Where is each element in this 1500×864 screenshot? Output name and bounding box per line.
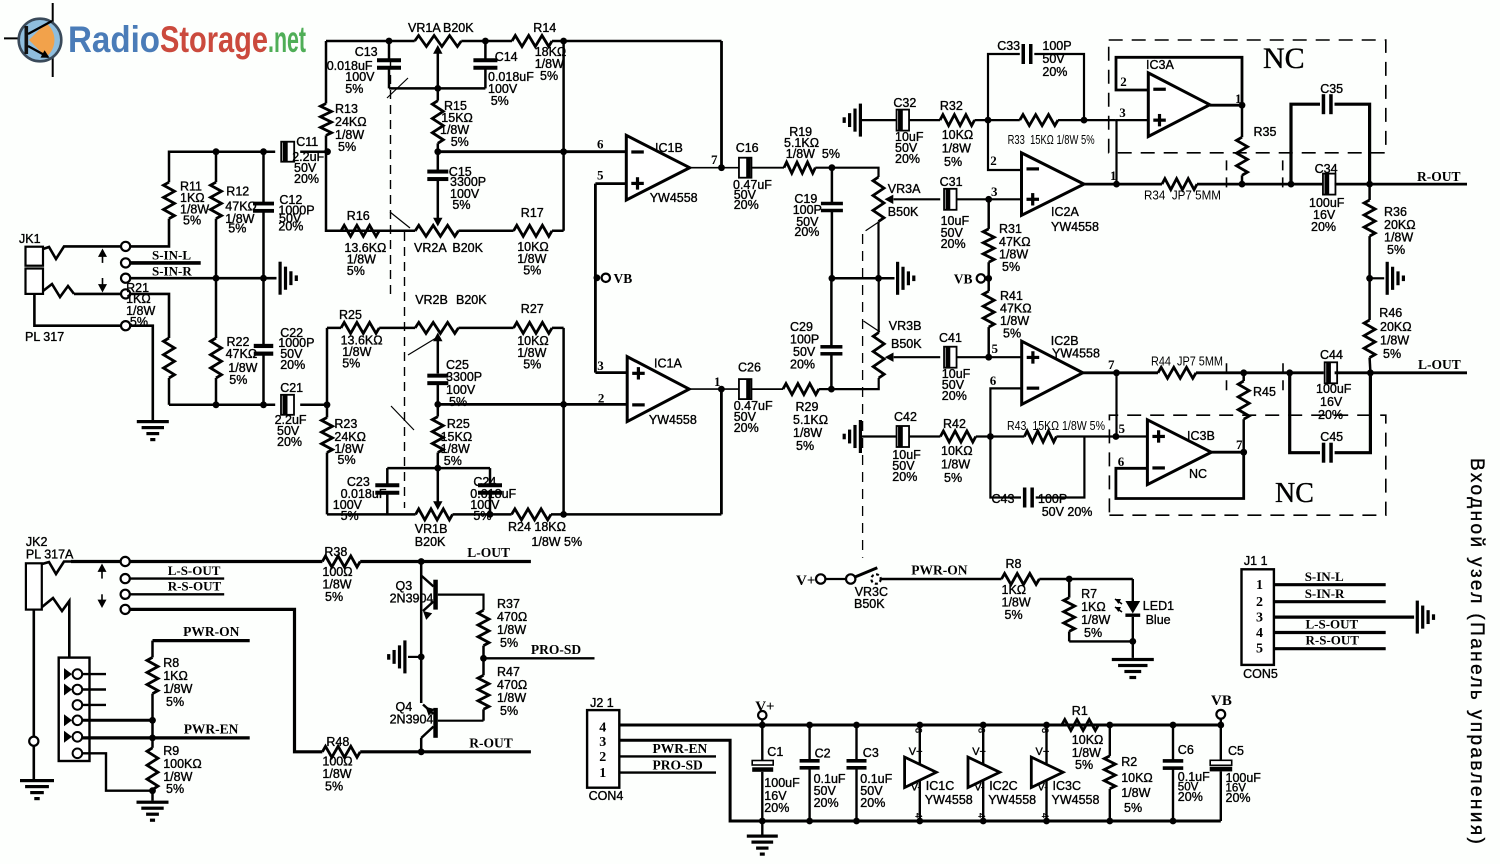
svg-text:V+: V+ — [796, 573, 815, 589]
svg-text:20%: 20% — [1042, 65, 1067, 79]
junction C19 top — [829, 164, 836, 171]
svg-text:R36: R36 — [1384, 205, 1407, 219]
potentiometer VR2A B20K — [414, 225, 484, 255]
svg-text:20%: 20% — [294, 172, 319, 186]
junction Q4 emitter — [418, 748, 425, 755]
svg-text:Blue: Blue — [1146, 613, 1171, 627]
svg-text:5%: 5% — [500, 704, 518, 718]
svg-text:3: 3 — [1119, 105, 1126, 120]
junction R36 top — [1366, 181, 1373, 188]
resistor R9 — [147, 744, 202, 796]
svg-text:R34 JP7 5MM: R34 JP7 5MM — [1144, 189, 1221, 203]
svg-text:470Ω: 470Ω — [497, 610, 527, 624]
op-amp IC3A — [1146, 58, 1210, 137]
svg-text:100KΩ: 100KΩ — [163, 757, 202, 771]
ground (S-IN-R) — [279, 262, 282, 295]
svg-text:LED1: LED1 — [1143, 599, 1174, 613]
svg-text:R14: R14 — [533, 21, 556, 35]
svg-text:5%: 5% — [325, 590, 343, 604]
jack JK1 switch arrow lower — [98, 278, 107, 293]
resistor R44 JP7.5MM — [1151, 355, 1223, 379]
junction VR3A bottom — [875, 275, 882, 282]
svg-text:V+: V+ — [909, 746, 923, 758]
wire bottom rail y514 — [327, 513, 721, 516]
svg-text:C13: C13 — [355, 45, 378, 59]
wire header pin1 stub — [82, 673, 106, 675]
NC dashed box bottom — [1109, 363, 1385, 515]
junction riser bottom — [560, 511, 567, 518]
junction pin4/R8/R9 — [149, 717, 156, 724]
svg-text:S-IN-R: S-IN-R — [152, 264, 192, 279]
svg-text:8: 8 — [913, 728, 923, 733]
svg-text:J2 1: J2 1 — [590, 696, 614, 710]
wire IC1A output — [689, 388, 739, 390]
junction pin6 wire — [560, 148, 567, 155]
svg-text:1/8W: 1/8W — [497, 691, 526, 705]
svg-text:20%: 20% — [734, 421, 759, 435]
junction C12/S-IN-R — [260, 275, 267, 282]
ground (power) — [747, 835, 778, 838]
svg-text:5%: 5% — [500, 636, 518, 650]
svg-text:2: 2 — [1256, 595, 1263, 610]
svg-text:20%: 20% — [764, 801, 789, 815]
svg-text:1/8W 5%: 1/8W 5% — [531, 535, 582, 549]
terminal circle JK2 sleeve — [29, 737, 38, 746]
svg-text:8: 8 — [977, 728, 987, 733]
svg-text:VB: VB — [954, 272, 973, 287]
wire L-S-OUT stub — [130, 577, 224, 579]
svg-text:2: 2 — [1120, 74, 1127, 89]
op-amp IC2A — [1022, 153, 1099, 234]
svg-text:YW4558: YW4558 — [649, 413, 697, 427]
op-amp IC3C buffer — [1031, 722, 1099, 825]
wire C31 to IC2A — [957, 198, 1022, 200]
svg-text:4: 4 — [977, 813, 987, 818]
jack JK2 sleeve contact — [42, 598, 69, 611]
junction C22 bottom — [260, 401, 267, 408]
node VB bottom — [1211, 693, 1232, 728]
svg-text:R46: R46 — [1379, 306, 1402, 320]
wire R25 row — [379, 327, 563, 330]
junction mid node — [418, 654, 425, 661]
wire ground rail — [762, 820, 1221, 823]
capacitor C31 — [940, 175, 970, 251]
resistor R19 — [784, 125, 840, 173]
svg-text:R24 18KΩ: R24 18KΩ — [508, 520, 566, 534]
svg-text:PL 317A: PL 317A — [26, 548, 74, 562]
junction IC1A out — [718, 386, 725, 393]
svg-text:R43 15KΩ 1/8W 5%: R43 15KΩ 1/8W 5% — [1007, 419, 1105, 433]
svg-text:5%: 5% — [341, 509, 359, 523]
wire CON4 pin3 to ground rail — [619, 740, 762, 821]
svg-text:5%: 5% — [1075, 758, 1093, 772]
svg-text:IC1B: IC1B — [655, 141, 683, 155]
svg-text:PRO-SD: PRO-SD — [531, 642, 582, 657]
svg-text:R35: R35 — [1254, 125, 1277, 139]
capacitor C25 — [427, 358, 482, 409]
svg-text:IC1A: IC1A — [654, 357, 682, 371]
svg-text:B20K: B20K — [443, 21, 474, 35]
svg-text:C44: C44 — [1320, 348, 1343, 362]
capacitor C42 — [892, 410, 921, 484]
resistor R1 — [1062, 704, 1104, 772]
wire IC3A output — [1210, 104, 1242, 107]
wire to right ground — [1370, 277, 1385, 279]
capacitor C15 — [427, 152, 486, 222]
svg-text:100uF: 100uF — [1316, 382, 1352, 396]
svg-text:NC: NC — [1275, 478, 1314, 509]
wire C32 to R32 — [909, 119, 940, 121]
capacitor C2 — [800, 722, 846, 825]
wire S-IN-L stub — [130, 261, 201, 265]
svg-text:16V: 16V — [1320, 395, 1343, 409]
capacitor C11 — [281, 135, 324, 186]
wire jack1 ring to R21 — [74, 294, 169, 338]
svg-text:YW4558: YW4558 — [650, 191, 698, 205]
op-amp IC1B — [626, 135, 697, 205]
wire R32-R33 — [975, 119, 1020, 121]
svg-text:IC3A: IC3A — [1146, 58, 1174, 72]
resistor R8 — [147, 641, 193, 721]
svg-text:S-IN-L: S-IN-L — [1305, 569, 1344, 584]
svg-text:20%: 20% — [277, 435, 302, 449]
ground (R9) — [137, 801, 169, 804]
svg-text:20%: 20% — [814, 796, 839, 810]
wire right column x563 lower — [562, 328, 565, 515]
svg-text:10KΩ: 10KΩ — [942, 128, 974, 142]
junction R12/S-IN-R — [213, 275, 220, 282]
svg-text:100uF: 100uF — [764, 776, 800, 790]
resistor R42 — [940, 417, 975, 485]
wire input node R-channel — [169, 152, 326, 183]
svg-text:R12: R12 — [226, 185, 249, 199]
svg-text:V-: V- — [1038, 782, 1049, 794]
resistor R46 — [1364, 278, 1411, 373]
capacitor C45 loop — [1290, 373, 1371, 463]
capacitor C32 — [893, 96, 923, 166]
wire V+ to switch — [825, 578, 846, 580]
wire header pin4 to R8/R9 — [82, 719, 152, 722]
svg-text:7: 7 — [711, 152, 718, 167]
wire PWR-ON to R8b — [881, 578, 1002, 580]
junction R2 bottom — [1106, 818, 1113, 825]
node V+ rail — [755, 699, 774, 728]
svg-text:5%: 5% — [449, 395, 467, 409]
junction PRO-SD — [480, 655, 487, 662]
capacitor C35 loop — [1291, 82, 1370, 184]
wire VB column — [594, 184, 597, 373]
node VB right — [954, 272, 992, 287]
svg-text:VR2A: VR2A — [414, 241, 447, 255]
junction C1 bottom — [759, 818, 766, 825]
wiper VR2B arrow — [433, 333, 442, 374]
svg-text:4: 4 — [1256, 626, 1263, 641]
svg-text:R37: R37 — [497, 597, 520, 611]
potentiometer VR3A B50K — [873, 177, 921, 278]
junction R45 top — [1240, 369, 1247, 376]
svg-text:IC1C: IC1C — [926, 779, 954, 793]
wire R29 to VR3B — [819, 387, 879, 390]
svg-text:PWR-EN: PWR-EN — [653, 741, 708, 756]
potentiometer VR1B B20K — [415, 509, 453, 549]
svg-text:5.1KΩ: 5.1KΩ — [793, 413, 828, 427]
svg-text:5%: 5% — [130, 315, 148, 329]
svg-text:R29: R29 — [796, 400, 819, 414]
wire right column x563 — [562, 41, 565, 231]
svg-text:PWR-ON: PWR-ON — [911, 563, 967, 578]
svg-text:L-S-OUT: L-S-OUT — [1306, 617, 1359, 632]
svg-text:VR3A: VR3A — [888, 182, 921, 196]
wire R43 to IC3B plus — [1116, 435, 1148, 437]
svg-text:5%: 5% — [1005, 608, 1023, 622]
svg-text:PWR-EN: PWR-EN — [184, 722, 239, 737]
wiper VR2A arrow — [433, 218, 442, 227]
svg-text:C41: C41 — [939, 331, 962, 345]
svg-text:R13: R13 — [335, 102, 358, 116]
resistor R38 — [322, 545, 360, 604]
svg-text:1/8W: 1/8W — [497, 623, 526, 637]
svg-text:5%: 5% — [1383, 347, 1401, 361]
junction R25b bottom — [434, 465, 441, 472]
wire header pin6 to ground node — [82, 753, 152, 790]
svg-text:R48: R48 — [326, 735, 349, 749]
wire C23-C24 loop — [387, 467, 490, 470]
svg-text:C34: C34 — [1315, 162, 1338, 176]
svg-text:C43: C43 — [992, 492, 1015, 506]
connector J2 CON4 — [587, 696, 623, 803]
svg-text:C11: C11 — [296, 135, 318, 149]
resistor R11 — [164, 180, 210, 228]
wire header pin3 stub — [82, 704, 106, 706]
wire CON5 pin4 L-S-OUT — [1274, 631, 1386, 634]
junction R36/R46 ground — [1366, 275, 1373, 282]
junction R46 bottom — [1367, 369, 1374, 376]
svg-text:C31: C31 — [940, 175, 963, 189]
svg-text:IC3C: IC3C — [1053, 779, 1081, 793]
svg-text:C42: C42 — [894, 410, 917, 424]
resistor R15 — [432, 88, 473, 151]
svg-text:VR3B: VR3B — [889, 319, 922, 333]
svg-text:5%: 5% — [444, 454, 462, 468]
svg-text:6: 6 — [597, 137, 604, 152]
wire JK2 sleeve to ground — [32, 610, 35, 779]
resistor R16 — [341, 209, 386, 278]
junction C19 bottom — [829, 275, 836, 282]
svg-text:VB: VB — [1211, 693, 1232, 709]
svg-text:5%: 5% — [523, 358, 541, 372]
wire CON5 pin5 R-S-OUT — [1274, 647, 1386, 650]
junction PWR-EN/R9 — [149, 735, 156, 742]
svg-text:R38: R38 — [324, 545, 347, 559]
svg-text:50V: 50V — [1042, 52, 1065, 66]
connector JK2 PL317A jack body — [26, 535, 74, 610]
svg-text:CON5: CON5 — [1243, 667, 1278, 681]
junction C14 top — [482, 38, 489, 45]
svg-text:B20K: B20K — [456, 293, 487, 307]
svg-text:J1 1: J1 1 — [1244, 554, 1268, 568]
wire pin2 IC2A — [988, 120, 1022, 170]
svg-text:5%: 5% — [796, 439, 814, 453]
svg-text:YW4558: YW4558 — [1052, 793, 1100, 807]
svg-text:20%: 20% — [895, 152, 920, 166]
resistor R2 — [1104, 725, 1152, 821]
wire IC2A output — [1084, 183, 1162, 186]
wire pin2 IC1A — [437, 403, 627, 406]
svg-text:5: 5 — [992, 341, 999, 356]
potentiometer VR1A B20K — [408, 21, 474, 47]
svg-text:1KΩ: 1KΩ — [1081, 600, 1106, 614]
resistor R29 — [783, 384, 828, 453]
wire C13-C14 loop — [389, 87, 485, 90]
capacitor C29 — [790, 278, 842, 389]
svg-text:5%: 5% — [540, 69, 558, 83]
junction C29 bottom — [828, 386, 835, 393]
svg-text:24KΩ: 24KΩ — [335, 115, 367, 129]
svg-text:R45: R45 — [1253, 385, 1276, 399]
wire mid node to ground — [408, 656, 421, 658]
svg-text:3: 3 — [597, 358, 604, 373]
svg-text:7: 7 — [1108, 357, 1115, 372]
svg-text:4: 4 — [1040, 813, 1050, 818]
svg-text:VR2B: VR2B — [415, 293, 448, 307]
junction IC2A out — [1113, 181, 1120, 188]
svg-text:R44 JP7 5MM: R44 JP7 5MM — [1151, 355, 1223, 369]
svg-text:YW4558: YW4558 — [925, 793, 973, 807]
svg-text:YW4558: YW4558 — [988, 793, 1036, 807]
svg-text:3300P: 3300P — [446, 370, 482, 384]
junction R35 bottom — [1239, 181, 1246, 188]
svg-text:R42: R42 — [943, 417, 966, 431]
svg-text:R-OUT: R-OUT — [469, 736, 513, 751]
svg-text:R1: R1 — [1072, 704, 1088, 718]
wire CON5 pin3 ground — [1274, 615, 1414, 618]
svg-text:R8: R8 — [1006, 557, 1022, 571]
svg-text:20%: 20% — [941, 237, 966, 251]
svg-text:VR1A: VR1A — [408, 21, 441, 35]
svg-text:R31: R31 — [999, 222, 1022, 236]
op-amp IC1C buffer — [905, 722, 973, 825]
svg-text:PL 317: PL 317 — [25, 330, 64, 344]
junction R32/R33/C33 — [985, 117, 992, 124]
op-amp IC2B — [1022, 334, 1100, 404]
wire jack1 tip to R11 — [72, 219, 169, 247]
svg-text:1/8W: 1/8W — [1380, 334, 1409, 348]
wire R-S-OUT stub — [130, 593, 224, 595]
capacitor C19 — [793, 168, 843, 279]
terminal circle JK2-1 — [121, 557, 130, 566]
svg-text:5%: 5% — [451, 135, 469, 149]
svg-text:1KΩ: 1KΩ — [163, 669, 188, 683]
wire pin5 IC1B — [595, 182, 626, 185]
svg-text:5%: 5% — [338, 140, 356, 154]
svg-text:L-OUT: L-OUT — [1418, 357, 1461, 372]
svg-text:JK1: JK1 — [19, 232, 41, 246]
svg-text:5%: 5% — [347, 264, 365, 278]
wire R7 bottom to LED cathode — [1069, 640, 1133, 642]
op-amp IC2C buffer — [968, 722, 1036, 825]
junction pin2/riser — [560, 401, 567, 408]
svg-text:C14: C14 — [495, 50, 518, 64]
resistor R45 — [1238, 373, 1276, 452]
svg-text:5%: 5% — [1003, 327, 1021, 341]
capacitor C21 — [275, 381, 307, 449]
svg-text:C26: C26 — [738, 361, 761, 375]
svg-text:R-OUT: R-OUT — [1417, 169, 1461, 184]
svg-text:R7: R7 — [1081, 587, 1097, 601]
svg-text:IC2C: IC2C — [989, 779, 1017, 793]
wire R9 to ground — [151, 790, 154, 801]
junction IC2B out — [1113, 369, 1120, 376]
ground (JK2 sleeve) — [20, 779, 54, 782]
svg-text:S-IN-R: S-IN-R — [1305, 586, 1345, 601]
svg-text:1/8W: 1/8W — [163, 682, 192, 696]
resistor R35 — [1237, 105, 1277, 184]
capacitor C14 — [473, 41, 534, 108]
svg-text:5%: 5% — [1124, 801, 1142, 815]
resistor R17 — [514, 206, 552, 278]
wire V+ rail — [619, 724, 1221, 727]
wire Q3 emitter to mid node — [420, 612, 423, 657]
junction R2 top — [1106, 722, 1113, 729]
capacitor C26 — [734, 361, 773, 436]
terminal circle JK1-3 — [121, 274, 130, 283]
svg-text:B50K: B50K — [891, 337, 922, 351]
connector 6-pin header — [59, 658, 90, 761]
svg-text:C1: C1 — [767, 745, 783, 759]
junction VB upper — [594, 274, 601, 281]
svg-text:20%: 20% — [790, 358, 815, 372]
svg-text:B20K: B20K — [452, 241, 483, 255]
wire input node L-channel — [169, 404, 327, 407]
svg-text:V+: V+ — [1036, 746, 1050, 758]
wire R44 to C44 — [1196, 371, 1324, 374]
resistor R7 — [1064, 579, 1111, 641]
junction wiper VR1A — [434, 85, 441, 92]
wire ground bus mid — [832, 277, 895, 280]
svg-text:5%: 5% — [523, 264, 541, 278]
svg-text:PWR-ON: PWR-ON — [183, 624, 239, 639]
ground (CON5) — [1416, 601, 1419, 634]
ground (C32 row) — [859, 104, 862, 137]
svg-text:Storage: Storage — [160, 19, 268, 60]
svg-text:6: 6 — [1118, 454, 1125, 469]
svg-text:20%: 20% — [942, 389, 967, 403]
logo RadioStorage.net — [4, 3, 306, 77]
capacitor C12 — [253, 152, 315, 279]
capacitor C22 — [254, 278, 315, 405]
wire R42-R43 — [976, 435, 1025, 437]
svg-text:2N3904: 2N3904 — [390, 592, 434, 606]
capacitor C33 loop — [988, 39, 1084, 120]
wire R19 to VR3A — [815, 168, 878, 177]
jack JK1 tip contact — [43, 246, 72, 259]
svg-text:5%: 5% — [452, 198, 470, 212]
svg-text:8: 8 — [1040, 728, 1050, 733]
svg-text:V-: V- — [911, 782, 922, 794]
wire PWR-EN stub CON4 — [619, 755, 716, 757]
LED LED1 Blue — [1115, 579, 1174, 641]
transistor Q3 2N3904 — [390, 562, 438, 620]
svg-text:4: 4 — [913, 813, 923, 818]
junction C11/R13 — [324, 148, 331, 155]
svg-text:5%: 5% — [345, 82, 363, 96]
resistor R41 — [983, 278, 1031, 357]
connector JK1 PL317 jack body — [19, 232, 64, 344]
resistor R22 — [211, 278, 258, 405]
svg-text:10KΩ: 10KΩ — [1072, 733, 1104, 747]
capacitor C16 — [733, 141, 772, 212]
svg-text:100P: 100P — [1042, 39, 1071, 53]
